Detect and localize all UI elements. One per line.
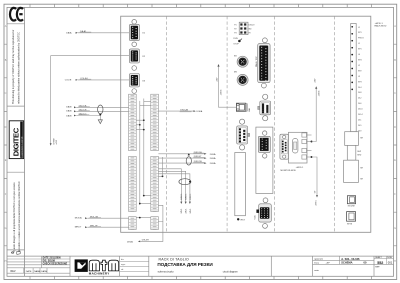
label X2 — [142, 56, 145, 58]
svg-text:RACK DI TAGLIO: RACK DI TAGLIO — [159, 257, 190, 261]
svg-text:DL2: DL2 — [358, 98, 361, 100]
svg-text:SH: SH — [360, 179, 363, 181]
svg-text:RACK MOD: RACK MOD — [375, 25, 387, 28]
svg-text:DA/B: DA/B — [66, 110, 72, 113]
svg-text:MD: MD — [249, 29, 253, 31]
svg-text:ПОДСТАВКА ДЛЯ РЕЗКИ: ПОДСТАВКА ДЛЯ РЕЗКИ — [157, 262, 213, 267]
svg-text:Questo disegno e di proprieta: Questo disegno e di proprieta della DIGI… — [13, 182, 16, 252]
svg-text:STOP: STOP — [233, 43, 239, 45]
shield junction node — [99, 114, 101, 116]
svg-text:24V/1: 24V/1 — [186, 209, 188, 214]
svg-text:RUN: RUN — [233, 38, 238, 40]
svg-text:MOL/A: MOL/A — [75, 217, 82, 220]
connector X3 serial DB9 — [129, 74, 139, 88]
+VDC supply wire with up arrow (left) — [217, 64, 237, 107]
wire to connector X2 with riser — [50, 56, 130, 146]
svg-text:L4: L4 — [358, 54, 360, 56]
svg-text:DL5: DL5 — [358, 125, 361, 127]
node on 24V feed — [311, 141, 313, 143]
svg-text:vd.: vd. — [121, 269, 124, 271]
svg-text:MOUSE: MOUSE — [348, 206, 356, 208]
cabinet section divider dashed lines — [167, 16, 335, 232]
three wires DIS2 with shield to DIS/A — [158, 152, 216, 165]
svg-text:0V: 0V — [315, 190, 317, 193]
keyboard DIN round connector KB — [234, 55, 248, 67]
svg-text:PROG: PROG — [358, 38, 364, 40]
svg-text:24V: 24V — [314, 78, 316, 82]
title block small approval cells — [120, 256, 149, 276]
svg-text:DA/B: DA/B — [66, 106, 72, 109]
svg-text:D: D — [5, 126, 7, 129]
svg-text:X2: X2 — [142, 56, 145, 58]
svg-text:DA-A1: DA-A1 — [80, 30, 87, 33]
svg-text:SP2: SP2 — [358, 70, 362, 72]
connector X1 serial DB9 — [129, 24, 139, 40]
title text RACK DI TAGLIO — [159, 257, 190, 261]
svg-text:note:: note: — [314, 269, 319, 272]
svg-text:HI: HI — [249, 33, 251, 35]
svg-text:24V/1: 24V/1 — [316, 199, 318, 205]
monitor DB connector — [280, 134, 289, 159]
svg-text:DIS/A: DIS/A — [210, 162, 216, 165]
svg-text:DIS-3H: DIS-3H — [142, 240, 149, 242]
svg-text:COL-A1: COL-A1 — [80, 77, 88, 80]
svg-text:MS: MS — [234, 71, 238, 73]
label X1 — [142, 33, 145, 35]
svg-text:DIS. SOLMI: DIS. SOLMI — [43, 261, 56, 263]
svg-text:A. SOL. 03-046: A. SOL. 03-046 — [341, 257, 360, 261]
0V wire with down arrow — [312, 157, 319, 206]
svg-text:+VDC: +VDC — [318, 90, 320, 96]
svg-text:X1: X1 — [142, 33, 145, 35]
svg-text:P3: P3 — [234, 33, 236, 35]
svg-text:schema circuito: schema circuito — [158, 270, 175, 273]
svg-text:DIS2-1: DIS2-1 — [186, 194, 188, 200]
svg-text:B: B — [394, 59, 396, 62]
terminal strip X2E right column — [151, 94, 159, 229]
svg-text:X3: X3 — [142, 80, 145, 82]
RST reset button label — [237, 218, 246, 222]
svg-text:24V/1: 24V/1 — [181, 209, 183, 214]
svg-text:DA-1CA: DA-1CA — [79, 104, 87, 107]
svg-text:COL/E: COL/E — [65, 79, 72, 81]
svg-text:circuit diagram: circuit diagram — [223, 270, 238, 273]
svg-text:LAN: LAN — [248, 107, 251, 111]
RUN STOP switch — [233, 38, 242, 45]
card slot blank panel — [235, 153, 246, 216]
disclaimer text italian (vertical) — [13, 181, 21, 252]
subtitle schema circuito / circuit diagram — [158, 270, 238, 273]
DB25 connector PANN TOP — [255, 38, 270, 88]
svg-text:DL6: DL6 — [358, 103, 361, 105]
strip cell line — [7, 171, 25, 173]
svg-text:001: 001 — [388, 261, 393, 265]
svg-text:E: E — [5, 159, 7, 162]
svg-text:DIS-19: DIS-19 — [249, 25, 255, 27]
svg-text:24V/1: 24V/1 — [190, 209, 192, 214]
first angle projection symbols — [11, 251, 20, 254]
svg-text:SP3: SP3 — [358, 81, 362, 83]
svg-text:REF:: REF: — [375, 267, 380, 269]
svg-text:released to third parties with: released to third parties without writte… — [18, 32, 21, 104]
svg-text:DIS2-1: DIS2-1 — [181, 194, 183, 200]
svg-text:RST: RST — [241, 220, 246, 222]
mouse jack connector — [347, 196, 355, 208]
DIP switch block — [234, 22, 254, 35]
svg-text:L2: L2 — [358, 65, 360, 67]
left margin strip divider — [24, 7, 26, 276]
svg-text:+/24: +/24 — [56, 139, 58, 144]
svg-text:REV.: REV. — [11, 270, 17, 273]
title text cyrillic — [157, 262, 213, 267]
svg-text:DL4: DL4 — [358, 87, 361, 89]
cabinet designation label +MOD.1 — [375, 23, 387, 28]
svg-text:DATA: DATA — [41, 270, 47, 273]
svg-text:A: A — [5, 25, 7, 28]
svg-text:L1: L1 — [358, 43, 360, 45]
svg-text:SP1: SP1 — [358, 32, 362, 34]
svg-text:DATE: DATE — [26, 270, 32, 273]
svg-text:SHP: SHP — [357, 151, 362, 153]
node on 0V feed — [311, 156, 313, 158]
disclaimer text english (vertical) — [12, 29, 21, 104]
fields box apparato/linea — [313, 256, 375, 272]
svg-text:C: C — [394, 92, 396, 95]
keyboard jack connector — [347, 212, 356, 226]
svg-text:G: G — [394, 227, 396, 230]
title block top line — [7, 255, 394, 257]
svg-text:F: F — [394, 193, 396, 196]
svg-text:DL1: DL1 — [358, 120, 361, 122]
svg-text:MONITOR-MOD: MONITOR-MOD — [281, 170, 297, 172]
svg-text:DA/B: DA/B — [66, 114, 72, 117]
mouse DIN round connector MS — [234, 71, 248, 85]
svg-text:+SP: +SP — [326, 263, 331, 265]
svg-text:+MOD.1: +MOD.1 — [375, 23, 384, 25]
svg-text:SH: SH — [360, 138, 363, 140]
internal connector box — [256, 127, 273, 193]
svg-text:KB: KB — [234, 55, 237, 57]
svg-text:DIS2-A3: DIS2-A3 — [180, 108, 189, 111]
svg-text:SCHEMA: SCHEMA — [341, 261, 352, 265]
title block dividers — [271, 256, 312, 276]
VGA connector — [254, 198, 272, 228]
svg-text:MOL-3A: MOL-3A — [90, 215, 98, 218]
ground symbol below shield — [98, 116, 102, 124]
svg-text:SHD: SHD — [357, 155, 362, 157]
svg-text:DA-1CC: DA-1CC — [79, 113, 87, 116]
label X3 — [142, 80, 145, 82]
shielded cable wires DA/B — [66, 104, 128, 117]
svg-text:SP4: SP4 — [358, 60, 362, 62]
svg-text:VGA: VGA — [254, 215, 257, 220]
CE cell line — [7, 23, 25, 25]
svg-text:NAME: NAME — [34, 270, 41, 273]
svg-text:DL8: DL8 — [358, 92, 361, 94]
svg-text:DL14: DL14 — [358, 114, 363, 116]
svg-text:STRM: STRM — [53, 138, 55, 144]
svg-text:PANN. TOP: PANN. TOP — [255, 56, 258, 67]
DB9 connector inside box — [258, 131, 270, 158]
svg-text:L1: L1 — [358, 27, 360, 29]
CE mark — [10, 8, 23, 21]
wire DIS/A exiting bottom — [127, 222, 163, 244]
wire from strip to bottom exit — [158, 205, 163, 221]
wire MOL/A to strip — [75, 215, 129, 219]
cable shield ellipse — [98, 105, 103, 114]
svg-text:DATE 23/11/2000: DATE 23/11/2000 — [43, 257, 62, 260]
svg-text:DA-1CB: DA-1CB — [79, 108, 87, 111]
keyboard terminal strip — [351, 24, 364, 133]
svg-text:N.SH: N.SH — [387, 257, 392, 259]
svg-text:DA/A: DA/A — [66, 31, 72, 34]
shield ellipse on DIS2 wires — [186, 153, 191, 165]
connector X2 serial DB9 — [129, 49, 139, 63]
svg-text:C: C — [5, 92, 7, 95]
wire DIS2-A3 from strip going right — [158, 108, 202, 113]
svg-text:A: A — [394, 25, 396, 28]
DB9 connector (middle, lower-left) — [237, 119, 250, 150]
svg-text:P1: P1 — [234, 25, 236, 27]
svg-text:automazione industriale: automazione industriale — [21, 137, 24, 157]
wire DA/A to connector X1 — [66, 30, 129, 34]
svg-text:DIS/A: DIS/A — [127, 240, 133, 243]
svg-text:This drawing is property of DI: This drawing is property of DIGITEC and … — [12, 29, 15, 104]
svg-text:appr.: appr. — [121, 263, 126, 266]
svg-text:DIS2-1: DIS2-1 — [190, 194, 192, 200]
svg-text:P2: P2 — [234, 29, 236, 31]
sheet number box — [374, 256, 394, 276]
svg-text:dis.: dis. — [121, 259, 125, 261]
+VDC supply wire with up arrow (right) — [312, 78, 321, 141]
svg-text:+MOD.1: +MOD.1 — [296, 167, 305, 169]
DB9 connector (middle, upper-right) — [258, 94, 271, 121]
svg-text:L3: L3 — [358, 76, 360, 78]
frame zone tick marks left and right — [4, 44, 397, 246]
monitor module label — [281, 167, 305, 172]
svg-text:B: B — [5, 59, 7, 62]
svg-text:MACHINERY: MACHINERY — [89, 271, 110, 275]
wire MHL/T to strip — [75, 225, 129, 228]
svg-text:SHEET: SHEET — [375, 257, 382, 259]
svg-text:552: 552 — [377, 261, 383, 265]
monitor module terminals — [302, 133, 312, 159]
keyboard tail boxes — [344, 132, 364, 183]
svg-text:+VDC: +VDC — [221, 89, 223, 95]
interconnect wires between terminal strips — [136, 99, 151, 218]
svg-text:24V: 24V — [217, 77, 219, 81]
shield ellipse horizontal on 24V wires — [179, 179, 191, 185]
svg-text:DIS/A: DIS/A — [210, 157, 216, 160]
strip cell line — [7, 105, 25, 107]
svg-text:KEYB: KEYB — [347, 223, 353, 225]
cabinet enclosure box — [121, 16, 371, 232]
svg-text:D: D — [394, 126, 396, 129]
DB9 mounting screw circles — [132, 20, 137, 94]
svg-text:SH: SH — [360, 168, 363, 170]
24V distribution wires with down arrows — [158, 157, 191, 214]
svg-text:DIGITEC: DIGITEC — [12, 127, 21, 156]
svg-text:E: E — [394, 159, 396, 162]
revision table — [7, 256, 70, 276]
svg-text:G: G — [5, 227, 7, 230]
LAN jack connector — [236, 103, 251, 112]
wire COL/E to connector X3 — [65, 77, 130, 81]
svg-text:apparato: apparato — [314, 258, 323, 261]
MTM machinery logo — [75, 259, 119, 275]
svg-text:MHL/T: MHL/T — [75, 227, 82, 229]
svg-text:DL10: DL10 — [358, 109, 363, 111]
svg-text:H: H — [5, 260, 7, 263]
svg-text:F: F — [5, 193, 7, 196]
svg-text:linea: linea — [314, 263, 319, 265]
strip cell line — [7, 249, 25, 251]
svg-text:H: H — [394, 260, 396, 263]
junction dots between strips — [139, 119, 145, 218]
svg-text:riprodotto o ceduto a terzi se: riprodotto o ceduto a terzi senza autori… — [18, 181, 21, 252]
svg-text:CHECK DESCRIZIONE: CHECK DESCRIZIONE — [43, 263, 68, 265]
DIGITEC logo — [9, 121, 23, 159]
monitor power module box — [289, 132, 308, 163]
svg-text:DIS/A: DIS/A — [197, 110, 203, 113]
svg-text:SP1: SP1 — [358, 49, 362, 51]
svg-text:DIS/A: DIS/A — [210, 153, 216, 156]
terminal strip X2D left column — [129, 94, 137, 229]
